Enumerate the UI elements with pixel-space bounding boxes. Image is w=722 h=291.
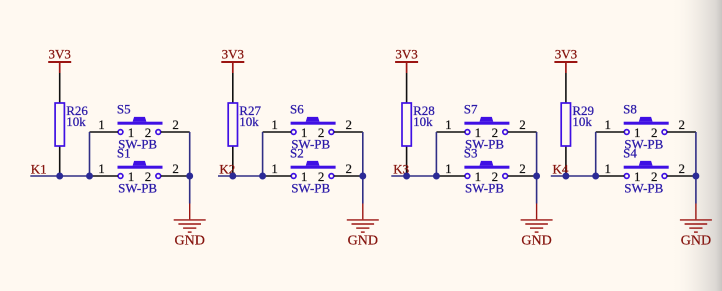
junction S2 pin 2 riser — [359, 173, 366, 180]
svg-text:K1: K1 — [31, 162, 47, 177]
svg-text:S5: S5 — [117, 101, 131, 116]
wire right riser S7 pin 2 to GND — [536, 132, 538, 204]
wire riser to S7 pin 1 — [435, 132, 437, 176]
wire riser to S6 pin 1 — [262, 132, 264, 176]
svg-text:1: 1 — [445, 117, 452, 132]
svg-text:2: 2 — [519, 161, 526, 176]
svg-text:2: 2 — [679, 161, 686, 176]
switch S8 SW-PB (upper) — [596, 101, 696, 151]
svg-text:S4: S4 — [623, 145, 637, 160]
svg-text:10k: 10k — [66, 114, 86, 129]
svg-text:3V3: 3V3 — [395, 46, 417, 61]
junction below R28 — [403, 173, 410, 180]
junction below R27 — [229, 173, 236, 180]
switch S3 SW-PB (lower) — [436, 145, 536, 195]
wire net K1 horizontal — [30, 175, 89, 177]
svg-text:3V3: 3V3 — [555, 46, 577, 61]
power 3V3 (K4 block) — [554, 46, 577, 73]
svg-text:2: 2 — [679, 117, 686, 132]
junction S3 pin 1 riser — [433, 173, 440, 180]
svg-text:1: 1 — [98, 117, 105, 132]
svg-text:S2: S2 — [290, 145, 304, 160]
junction S3 pin 2 riser — [533, 173, 540, 180]
resistor R28 10k — [402, 73, 435, 174]
wire net K2 horizontal — [218, 175, 263, 177]
junction below R29 — [562, 173, 569, 180]
svg-text:S1: S1 — [117, 145, 131, 160]
wire right riser S6 pin 2 to GND — [362, 132, 364, 204]
wire right riser S8 pin 2 to GND — [695, 132, 697, 204]
svg-text:1: 1 — [445, 161, 452, 176]
switch S1 SW-PB (lower) — [90, 145, 190, 195]
switch S4 SW-PB (lower) — [596, 145, 696, 195]
svg-text:1: 1 — [604, 161, 611, 176]
svg-text:S7: S7 — [464, 101, 478, 116]
resistor R29 10k — [561, 73, 594, 174]
wire net K4 horizontal — [551, 175, 596, 177]
svg-text:S6: S6 — [290, 101, 304, 116]
junction S4 pin 1 riser — [592, 173, 599, 180]
switch S7 SW-PB (upper) — [436, 101, 536, 151]
ground GND (K1 block) — [174, 204, 206, 249]
svg-text:2: 2 — [345, 117, 352, 132]
svg-text:1: 1 — [98, 161, 105, 176]
svg-text:10k: 10k — [572, 114, 592, 129]
junction S1 pin 1 riser — [86, 173, 93, 180]
resistor R27 10k — [228, 73, 261, 174]
svg-text:3V3: 3V3 — [222, 46, 244, 61]
junction S2 pin 1 riser — [259, 173, 266, 180]
svg-text:10k: 10k — [413, 114, 433, 129]
svg-text:S3: S3 — [464, 145, 478, 160]
junction S1 pin 2 riser — [186, 173, 193, 180]
junction S4 pin 2 riser — [692, 173, 699, 180]
svg-text:1: 1 — [271, 161, 278, 176]
svg-text:10k: 10k — [239, 114, 259, 129]
junction below R26 — [56, 173, 63, 180]
switch S2 SW-PB (lower) — [263, 145, 363, 195]
svg-text:1: 1 — [604, 117, 611, 132]
svg-text:1: 1 — [271, 117, 278, 132]
power 3V3 (K3 block) — [395, 46, 418, 73]
wire right riser S5 pin 2 to GND — [189, 132, 191, 204]
svg-text:2: 2 — [345, 161, 352, 176]
power 3V3 (K1 block) — [48, 46, 71, 73]
svg-text:SW-PB: SW-PB — [465, 180, 504, 195]
svg-text:2: 2 — [172, 117, 179, 132]
ground GND (K4 block) — [680, 204, 712, 249]
svg-text:2: 2 — [172, 161, 179, 176]
svg-text:3V3: 3V3 — [49, 46, 71, 61]
resistor R26 10k — [55, 73, 88, 174]
wire riser to S5 pin 1 — [89, 132, 91, 176]
ground GND (K2 block) — [347, 204, 379, 249]
ground GND (K3 block) — [521, 204, 553, 249]
wire net K3 horizontal — [391, 175, 436, 177]
svg-text:2: 2 — [519, 117, 526, 132]
svg-text:GND: GND — [175, 234, 205, 249]
svg-text:SW-PB: SW-PB — [624, 180, 663, 195]
svg-text:GND: GND — [681, 234, 711, 249]
switch S5 SW-PB (upper) — [90, 101, 190, 151]
switch S6 SW-PB (upper) — [263, 101, 363, 151]
svg-text:S8: S8 — [623, 101, 637, 116]
wire riser to S8 pin 1 — [595, 132, 597, 176]
power 3V3 (K2 block) — [221, 46, 244, 73]
svg-text:GND: GND — [521, 234, 551, 249]
svg-text:GND: GND — [348, 234, 378, 249]
svg-text:SW-PB: SW-PB — [291, 180, 330, 195]
svg-text:SW-PB: SW-PB — [118, 180, 157, 195]
